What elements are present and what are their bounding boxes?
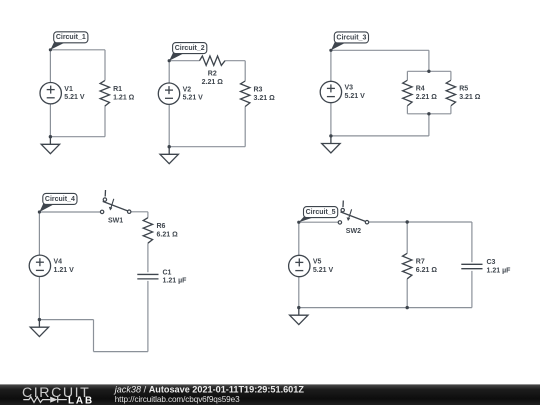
svg-text:5.21 V: 5.21 V — [64, 94, 85, 101]
svg-text:R5: R5 — [459, 86, 468, 93]
svg-text:V1: V1 — [64, 86, 73, 93]
svg-text:SW1: SW1 — [108, 218, 123, 225]
svg-text:5.21 V: 5.21 V — [313, 267, 334, 274]
svg-text:Circuit_1: Circuit_1 — [56, 34, 86, 41]
svg-text:R1: R1 — [113, 86, 122, 93]
svg-text:Circuit_5: Circuit_5 — [306, 209, 336, 216]
svg-text:1.21 µF: 1.21 µF — [487, 268, 512, 275]
svg-text:6.21 Ω: 6.21 Ω — [416, 267, 438, 274]
svg-text:1.21 µF: 1.21 µF — [163, 278, 188, 285]
svg-text:R3: R3 — [254, 86, 263, 93]
svg-text:Circuit_2: Circuit_2 — [175, 45, 205, 52]
svg-text:Circuit_4: Circuit_4 — [45, 196, 75, 203]
svg-text:SW2: SW2 — [346, 228, 361, 235]
svg-text:1.21 Ω: 1.21 Ω — [113, 94, 135, 101]
svg-text:C3: C3 — [487, 259, 496, 266]
svg-text:C1: C1 — [163, 269, 172, 276]
svg-text:R4: R4 — [416, 86, 425, 93]
svg-text:3.21 Ω: 3.21 Ω — [459, 94, 481, 101]
svg-text:LAB: LAB — [68, 395, 94, 405]
svg-text:5.21 V: 5.21 V — [183, 95, 204, 102]
svg-text:Circuit_3: Circuit_3 — [336, 34, 366, 41]
svg-text:R2: R2 — [208, 70, 217, 77]
svg-text:6.21 Ω: 6.21 Ω — [157, 231, 179, 238]
svg-text:V5: V5 — [313, 259, 322, 266]
svg-text:1.21 V: 1.21 V — [54, 267, 75, 274]
svg-text:V3: V3 — [345, 85, 354, 92]
svg-text:2.21 Ω: 2.21 Ω — [202, 79, 224, 86]
svg-text:jack38 / Autosave 2021-01-11T1: jack38 / Autosave 2021-01-11T19:29:51.60… — [113, 385, 305, 395]
svg-text:R6: R6 — [157, 223, 166, 230]
svg-text:V2: V2 — [183, 86, 192, 93]
svg-text:V4: V4 — [54, 258, 63, 265]
svg-text:3.21 Ω: 3.21 Ω — [254, 95, 276, 102]
svg-text:2.21 Ω: 2.21 Ω — [416, 94, 438, 101]
svg-text:R7: R7 — [416, 259, 425, 266]
svg-text:http://circuitlab.com/cbqv6f9q: http://circuitlab.com/cbqv6f9qs59e3 — [115, 395, 240, 404]
svg-text:5.21 V: 5.21 V — [345, 93, 366, 100]
